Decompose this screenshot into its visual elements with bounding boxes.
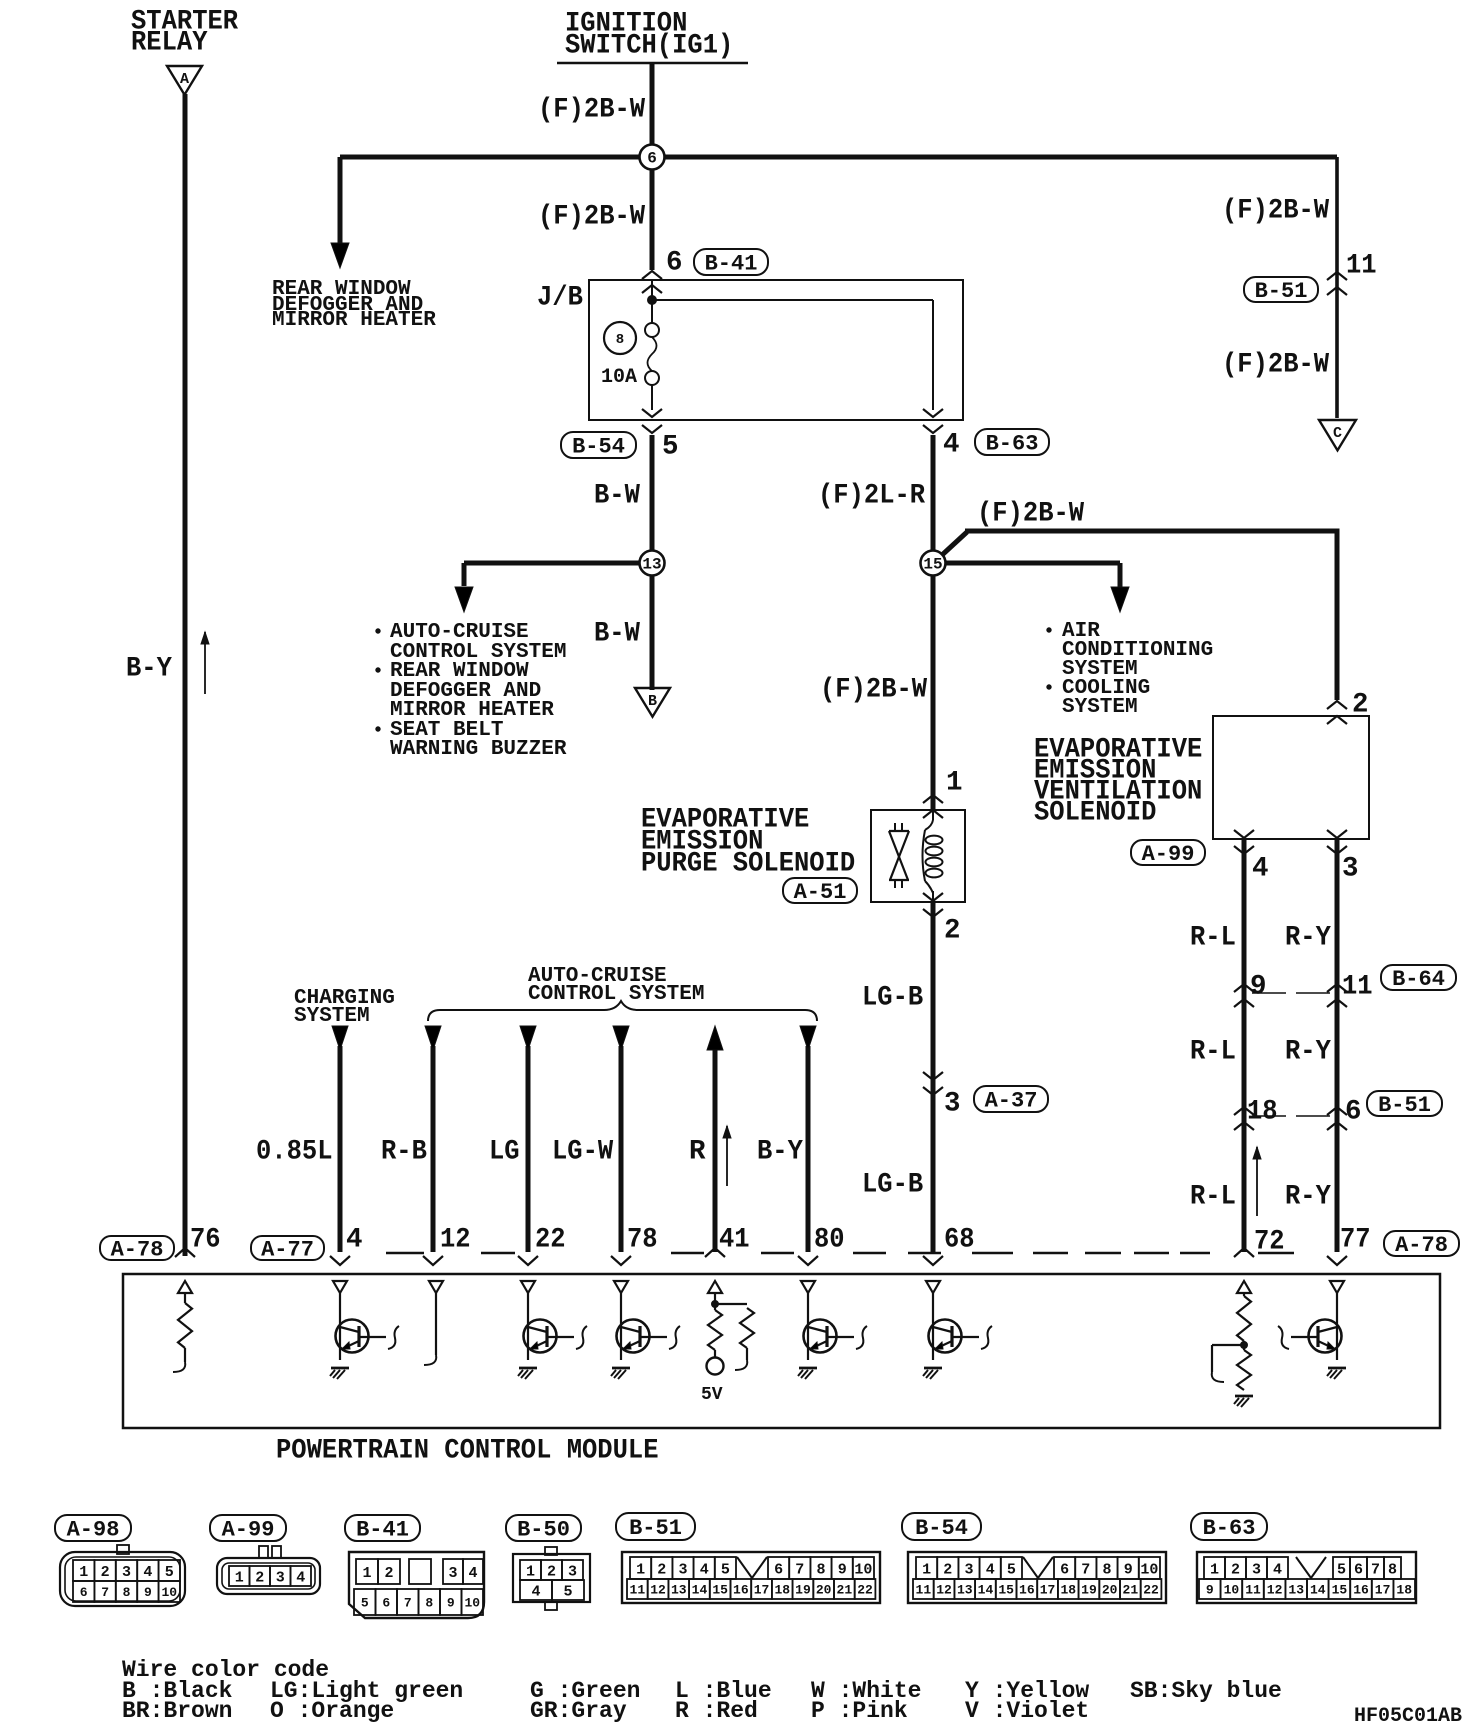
svg-text:41: 41 <box>719 1225 750 1256</box>
svg-text:21: 21 <box>837 1583 853 1598</box>
svg-text:7: 7 <box>1081 1561 1090 1578</box>
svg-text:13: 13 <box>957 1583 973 1598</box>
svg-text:6: 6 <box>1060 1561 1069 1578</box>
svg-text:1: 1 <box>946 768 963 799</box>
svg-text:B-W: B-W <box>594 481 640 512</box>
svg-text:R-L: R-L <box>1190 1037 1236 1068</box>
svg-text:1: 1 <box>235 1569 244 1586</box>
svg-text:MIRROR HEATER: MIRROR HEATER <box>272 309 436 332</box>
svg-text:4: 4 <box>531 1583 540 1600</box>
svg-text:80: 80 <box>814 1225 845 1256</box>
svg-text:7: 7 <box>404 1596 412 1611</box>
svg-text:8: 8 <box>816 1561 825 1578</box>
svg-text:15: 15 <box>712 1583 728 1598</box>
svg-text:11: 11 <box>630 1583 646 1598</box>
svg-text:0.85L: 0.85L <box>256 1137 333 1168</box>
svg-text:3: 3 <box>678 1561 687 1578</box>
svg-text:R-Y: R-Y <box>1285 923 1331 954</box>
svg-text:77: 77 <box>1340 1225 1371 1256</box>
svg-text:17: 17 <box>1375 1583 1391 1598</box>
svg-text:11: 11 <box>1346 251 1377 282</box>
svg-text:5: 5 <box>563 1583 572 1600</box>
svg-text:8: 8 <box>1102 1561 1111 1578</box>
svg-text:4: 4 <box>346 1225 363 1256</box>
svg-text:19: 19 <box>795 1583 811 1598</box>
svg-text:4: 4 <box>296 1569 305 1586</box>
svg-text:CONTROL SYSTEM: CONTROL SYSTEM <box>528 983 704 1006</box>
svg-text:A-78: A-78 <box>111 1237 164 1262</box>
svg-text:5V: 5V <box>701 1385 723 1405</box>
svg-text:V :Violet: V :Violet <box>965 1698 1089 1724</box>
svg-text:LG-B: LG-B <box>862 983 923 1014</box>
svg-text:9: 9 <box>838 1561 847 1578</box>
svg-text:6: 6 <box>1354 1561 1363 1578</box>
svg-text:R-L: R-L <box>1190 923 1236 954</box>
svg-text:R-Y: R-Y <box>1285 1182 1331 1213</box>
svg-text:10: 10 <box>464 1596 480 1611</box>
svg-text:11: 11 <box>1245 1583 1261 1598</box>
svg-text:SOLENOID: SOLENOID <box>1034 798 1156 829</box>
svg-text:8: 8 <box>425 1596 433 1611</box>
svg-text:2: 2 <box>943 1561 952 1578</box>
svg-text:3: 3 <box>276 1569 285 1586</box>
svg-text:BR:Brown: BR:Brown <box>122 1698 232 1724</box>
svg-text:15: 15 <box>923 556 942 574</box>
svg-text:POWERTRAIN CONTROL MODULE: POWERTRAIN CONTROL MODULE <box>276 1436 659 1467</box>
svg-text:PURGE SOLENOID: PURGE SOLENOID <box>641 849 855 880</box>
svg-text:10: 10 <box>1224 1583 1240 1598</box>
svg-text:(F)2B-W: (F)2B-W <box>1222 196 1330 227</box>
svg-text:1: 1 <box>362 1565 371 1582</box>
svg-text:7: 7 <box>795 1561 804 1578</box>
svg-text:A-98: A-98 <box>67 1517 120 1542</box>
svg-text:B-41: B-41 <box>356 1517 409 1542</box>
svg-text:14: 14 <box>692 1583 708 1598</box>
svg-text:7: 7 <box>1371 1561 1380 1578</box>
svg-text:6: 6 <box>1345 1097 1362 1128</box>
svg-text:P :Pink: P :Pink <box>811 1698 908 1724</box>
svg-text:(F)2B-W: (F)2B-W <box>977 499 1085 530</box>
svg-text:4: 4 <box>943 430 960 461</box>
svg-text:(F)2B-W: (F)2B-W <box>820 675 928 706</box>
svg-text:6: 6 <box>647 150 657 168</box>
svg-text:R-B: R-B <box>381 1137 427 1168</box>
svg-text:SB:Sky blue: SB:Sky blue <box>1130 1678 1282 1704</box>
svg-text:2: 2 <box>1231 1561 1240 1578</box>
svg-text:5: 5 <box>165 1564 174 1581</box>
svg-text:22: 22 <box>857 1583 873 1598</box>
svg-text:A-99: A-99 <box>1142 842 1195 867</box>
svg-text:16: 16 <box>1019 1583 1035 1598</box>
svg-text:6: 6 <box>774 1561 783 1578</box>
svg-text:8: 8 <box>123 1585 131 1600</box>
svg-text:LG: LG <box>489 1137 520 1168</box>
svg-text:10: 10 <box>854 1561 872 1578</box>
svg-text:5: 5 <box>721 1561 730 1578</box>
svg-text:20: 20 <box>816 1583 832 1598</box>
svg-text:B-63: B-63 <box>1203 1516 1256 1541</box>
svg-text:68: 68 <box>944 1225 975 1256</box>
svg-text:6: 6 <box>80 1585 88 1600</box>
svg-text:B-51: B-51 <box>1255 279 1308 304</box>
svg-text:2: 2 <box>1352 690 1369 721</box>
svg-text:A-78: A-78 <box>1395 1233 1448 1258</box>
svg-text:1: 1 <box>79 1564 88 1581</box>
svg-text:6: 6 <box>666 248 683 279</box>
svg-text:HF05C01AB: HF05C01AB <box>1354 1705 1462 1728</box>
svg-text:1: 1 <box>1210 1561 1219 1578</box>
svg-text:2: 2 <box>101 1564 110 1581</box>
svg-text:10A: 10A <box>601 366 637 389</box>
svg-text:12: 12 <box>1267 1583 1283 1598</box>
svg-text:3: 3 <box>964 1561 973 1578</box>
svg-text:A-51: A-51 <box>794 880 847 905</box>
svg-text:2: 2 <box>944 916 961 947</box>
svg-text:1: 1 <box>922 1561 931 1578</box>
svg-text:18: 18 <box>1247 1097 1278 1128</box>
svg-text:B-Y: B-Y <box>757 1137 803 1168</box>
svg-text:(F)2B-W: (F)2B-W <box>538 202 646 233</box>
svg-text:WARNING BUZZER: WARNING BUZZER <box>390 738 567 761</box>
svg-text:17: 17 <box>754 1583 770 1598</box>
svg-text:15: 15 <box>1332 1583 1348 1598</box>
svg-text:3: 3 <box>1342 854 1359 885</box>
svg-text:4: 4 <box>468 1565 477 1582</box>
svg-text:11: 11 <box>1342 972 1373 1003</box>
svg-text:18: 18 <box>1396 1583 1412 1598</box>
svg-text:B-Y: B-Y <box>126 654 172 685</box>
svg-text:(F)2B-W: (F)2B-W <box>538 95 646 126</box>
svg-text:4: 4 <box>700 1561 709 1578</box>
svg-text:16: 16 <box>733 1583 749 1598</box>
svg-text:3: 3 <box>568 1563 577 1580</box>
svg-text:3: 3 <box>944 1089 961 1120</box>
svg-text:B-50: B-50 <box>517 1517 570 1542</box>
svg-text:LG-W: LG-W <box>552 1137 614 1168</box>
svg-text:SYSTEM: SYSTEM <box>1062 696 1138 719</box>
svg-text:A-99: A-99 <box>222 1517 275 1542</box>
svg-text:9: 9 <box>447 1596 455 1611</box>
svg-text:8: 8 <box>616 332 624 348</box>
svg-text:11: 11 <box>916 1583 932 1598</box>
svg-text:9: 9 <box>1124 1561 1133 1578</box>
svg-text:B-54: B-54 <box>572 434 625 459</box>
svg-text:22: 22 <box>1143 1583 1159 1598</box>
svg-text:1: 1 <box>636 1561 645 1578</box>
svg-text:20: 20 <box>1102 1583 1118 1598</box>
svg-text:9: 9 <box>1250 972 1267 1003</box>
svg-text:LG-B: LG-B <box>862 1170 923 1201</box>
svg-text:3: 3 <box>1252 1561 1261 1578</box>
svg-text:R-Y: R-Y <box>1285 1037 1331 1068</box>
svg-text:2: 2 <box>255 1569 264 1586</box>
svg-text:22: 22 <box>535 1225 566 1256</box>
svg-text:13: 13 <box>1288 1583 1304 1598</box>
svg-text:15: 15 <box>998 1583 1014 1598</box>
svg-text:7: 7 <box>101 1585 109 1600</box>
svg-text:(F)2B-W: (F)2B-W <box>1222 350 1330 381</box>
svg-text:14: 14 <box>1310 1583 1326 1598</box>
svg-text:9: 9 <box>1206 1583 1214 1598</box>
svg-text:4: 4 <box>143 1564 152 1581</box>
svg-text:18: 18 <box>1060 1583 1076 1598</box>
svg-text:SWITCH(IG1): SWITCH(IG1) <box>565 31 733 62</box>
svg-text:O :Orange: O :Orange <box>270 1698 394 1724</box>
svg-text:SYSTEM: SYSTEM <box>294 1005 370 1028</box>
svg-text:18: 18 <box>774 1583 790 1598</box>
svg-text:RELAY: RELAY <box>131 28 208 59</box>
svg-text:A-37: A-37 <box>985 1088 1038 1113</box>
svg-text:5: 5 <box>662 432 679 463</box>
svg-text:78: 78 <box>627 1225 658 1256</box>
svg-text:5: 5 <box>361 1596 369 1611</box>
svg-text:8: 8 <box>1388 1561 1397 1578</box>
svg-text:19: 19 <box>1081 1583 1097 1598</box>
svg-text:12: 12 <box>650 1583 666 1598</box>
svg-text:2: 2 <box>547 1563 556 1580</box>
svg-text:R-L: R-L <box>1190 1182 1236 1213</box>
svg-text:72: 72 <box>1254 1227 1285 1258</box>
svg-text:6: 6 <box>382 1596 390 1611</box>
svg-text:B-51: B-51 <box>1378 1093 1431 1118</box>
svg-text:5: 5 <box>1337 1561 1346 1578</box>
svg-text:3: 3 <box>122 1564 131 1581</box>
svg-text:4: 4 <box>1252 854 1269 885</box>
svg-text:13: 13 <box>671 1583 687 1598</box>
svg-text:4: 4 <box>1273 1561 1282 1578</box>
svg-text:B-64: B-64 <box>1392 967 1445 992</box>
svg-text:2: 2 <box>657 1561 666 1578</box>
svg-text:4: 4 <box>986 1561 995 1578</box>
svg-text:21: 21 <box>1123 1583 1139 1598</box>
svg-text:B-W: B-W <box>594 619 640 650</box>
svg-text:10: 10 <box>161 1585 177 1600</box>
svg-text:16: 16 <box>1353 1583 1369 1598</box>
svg-text:(F)2L-R: (F)2L-R <box>818 481 926 512</box>
svg-text:17: 17 <box>1040 1583 1056 1598</box>
svg-text:1: 1 <box>526 1563 535 1580</box>
svg-text:12: 12 <box>936 1583 952 1598</box>
svg-text:13: 13 <box>642 556 661 574</box>
svg-text:B-41: B-41 <box>705 251 758 276</box>
svg-text:R :Red: R :Red <box>675 1698 758 1724</box>
svg-text:B-63: B-63 <box>986 431 1039 456</box>
svg-text:R: R <box>689 1137 706 1168</box>
svg-text:A-77: A-77 <box>261 1237 314 1262</box>
svg-text:B-54: B-54 <box>915 1516 968 1541</box>
svg-text:2: 2 <box>384 1565 393 1582</box>
svg-text:J/B: J/B <box>537 283 583 314</box>
svg-text:GR:Gray: GR:Gray <box>530 1698 627 1724</box>
svg-text:3: 3 <box>448 1565 457 1582</box>
svg-text:B-51: B-51 <box>629 1516 682 1541</box>
svg-text:9: 9 <box>144 1585 152 1600</box>
svg-text:A: A <box>180 71 189 88</box>
svg-text:14: 14 <box>978 1583 994 1598</box>
svg-text:B: B <box>648 693 657 710</box>
svg-text:12: 12 <box>440 1225 471 1256</box>
svg-text:C: C <box>1333 425 1342 442</box>
svg-text:5: 5 <box>1007 1561 1016 1578</box>
svg-text:76: 76 <box>190 1225 221 1256</box>
svg-text:10: 10 <box>1140 1561 1158 1578</box>
